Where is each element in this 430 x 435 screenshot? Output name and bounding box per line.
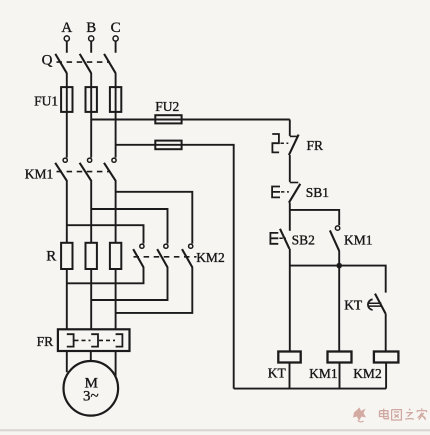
svg-text:KM2: KM2	[353, 366, 382, 381]
svg-text:KM1: KM1	[309, 366, 338, 381]
svg-text:KM2: KM2	[196, 250, 225, 265]
svg-text:C: C	[111, 20, 121, 36]
svg-text:Q: Q	[42, 53, 53, 69]
svg-text:3~: 3~	[83, 389, 99, 405]
svg-text:R: R	[46, 249, 56, 265]
svg-text:FU1: FU1	[34, 93, 58, 108]
svg-text:KM1: KM1	[344, 232, 373, 247]
svg-text:SB2: SB2	[292, 232, 315, 247]
svg-text:KT: KT	[268, 366, 287, 381]
svg-text:KM1: KM1	[25, 166, 54, 181]
svg-text:FU2: FU2	[155, 99, 179, 114]
svg-text:A: A	[61, 20, 72, 36]
svg-text:KT: KT	[344, 298, 363, 313]
svg-text:B: B	[86, 20, 96, 36]
svg-text:FR: FR	[37, 334, 54, 349]
svg-text:FR: FR	[307, 138, 324, 153]
svg-text:SB1: SB1	[306, 185, 329, 200]
